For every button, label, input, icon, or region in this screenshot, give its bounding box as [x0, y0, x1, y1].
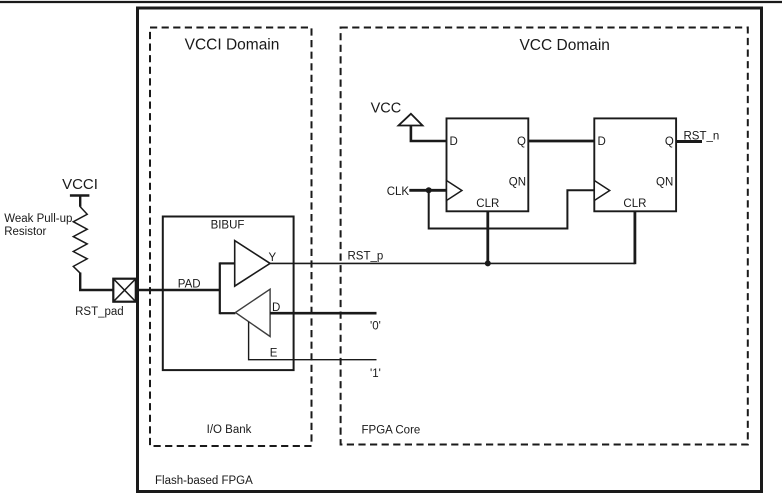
svg-text:E: E	[270, 348, 278, 360]
svg-text:VCCI Domain: VCCI Domain	[185, 37, 280, 54]
U1 clock triangle pin	[447, 181, 462, 201]
VCC Domain dashed region	[341, 28, 748, 445]
svg-text:RST_p: RST_p	[348, 251, 384, 263]
flip-flop U2 box	[594, 118, 676, 211]
internal pad bus wire	[220, 262, 236, 314]
svg-text:CLR: CLR	[476, 198, 499, 210]
svg-text:QN: QN	[509, 177, 526, 189]
svg-text:FPGA Core: FPGA Core	[362, 424, 421, 436]
svg-text:I/O Bank: I/O Bank	[207, 424, 252, 436]
svg-text:'1': '1'	[370, 368, 381, 380]
svg-text:QN: QN	[656, 177, 673, 189]
top rule line	[0, 1, 782, 3]
svg-text:D: D	[598, 136, 606, 148]
svg-text:BIBUF: BIBUF	[211, 220, 245, 232]
wire: E tie-off '1'	[249, 322, 381, 380]
pad symbol RST_pad (box with X)	[75, 279, 136, 318]
flip-flop U1 box	[447, 118, 529, 211]
svg-text:CLR: CLR	[623, 198, 646, 210]
wire: CLR of U1	[486, 211, 489, 263]
svg-text:VCC: VCC	[371, 101, 402, 117]
wire: CLR of U2	[634, 211, 637, 264]
svg-text:RST_pad: RST_pad	[75, 306, 124, 318]
tristate output buffer triangle (D/E)	[235, 289, 280, 359]
svg-text:Resistor: Resistor	[4, 226, 46, 238]
svg-text:Q: Q	[665, 136, 674, 148]
svg-text:Flash-based FPGA: Flash-based FPGA	[155, 475, 253, 487]
weak pull-up resistor R (zigzag)	[4, 207, 87, 273]
svg-text:Weak Pull-up: Weak Pull-up	[4, 213, 72, 225]
wire: VCC to D of U1	[411, 126, 447, 142]
node: CLK junction dot	[426, 187, 432, 193]
svg-text:PAD: PAD	[178, 278, 201, 290]
Flash-based FPGA boundary box	[138, 8, 762, 492]
svg-text:CLK: CLK	[387, 186, 410, 198]
svg-text:RST_n: RST_n	[684, 130, 720, 142]
wire: CLK input	[387, 186, 447, 198]
wire: pad to BIBUF PAD input	[136, 278, 220, 290]
wire RST_p: Y output to flip-flop CLR net	[270, 251, 635, 264]
svg-text:VCCI: VCCI	[62, 176, 98, 193]
wire: D tie-off '0'	[270, 313, 381, 332]
node: RST_p junction dot	[485, 260, 491, 266]
VCCI Domain dashed region	[150, 28, 312, 447]
svg-text:D: D	[450, 136, 458, 148]
BIBUF cell box	[163, 217, 294, 371]
wire: Q of U1 to D of U2	[528, 140, 594, 143]
svg-text:Q: Q	[517, 136, 526, 148]
svg-text:'0': '0'	[370, 321, 381, 333]
wire: CLK routing to U2	[429, 190, 595, 228]
svg-text:Y: Y	[269, 252, 277, 264]
VCC supply symbol	[371, 101, 423, 126]
U2 clock triangle pin	[594, 181, 609, 201]
wire: Q of U2 to RST_n	[676, 130, 719, 142]
wire: resistor to pad	[80, 273, 113, 291]
VCCI supply symbol	[62, 176, 98, 207]
svg-text:VCC Domain: VCC Domain	[519, 37, 609, 54]
input buffer triangle (Y)	[235, 241, 277, 287]
